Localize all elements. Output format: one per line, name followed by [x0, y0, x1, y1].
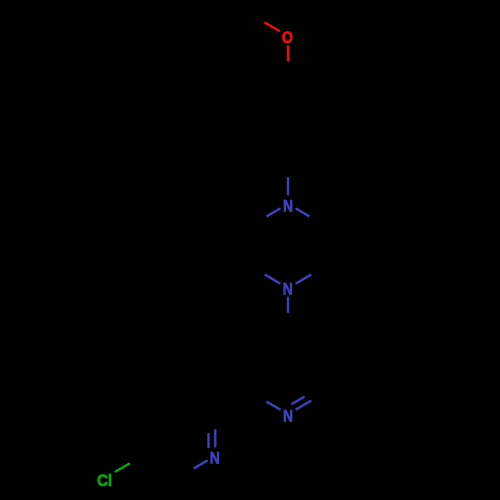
- bond N1-PC2R: [296, 209, 324, 225]
- bond B3-B2: [179, 393, 215, 414]
- bond A2-AN1: [296, 393, 324, 409]
- double bond inner line B6=B5: [151, 453, 177, 468]
- bond B6-B5: [143, 456, 179, 477]
- double bond inner line B4=B3: [151, 402, 177, 417]
- bond A4-A3: [288, 330, 324, 351]
- bond C4-C3L: [252, 141, 288, 162]
- bond C4-N1: [287, 162, 289, 194]
- bond C1-C2R: [288, 78, 324, 99]
- bond B5-B4: [141, 414, 143, 456]
- bond PC3L-N4: [252, 267, 280, 283]
- svg-text:N: N: [210, 450, 220, 468]
- double bond inner line A6=A5: [257, 357, 259, 387]
- bond A3-A2: [323, 351, 325, 393]
- double bond inner line C2R=C3R: [316, 105, 318, 135]
- bond C2L-C1: [252, 78, 288, 99]
- bond A6-A5: [250, 351, 252, 393]
- svg-text:N: N: [283, 281, 293, 299]
- bond N4-A4: [287, 298, 289, 330]
- bond BN1-B6: [179, 461, 207, 477]
- bond CH3-O: [252, 15, 279, 31]
- svg-text:N: N: [283, 198, 293, 216]
- bond B4-B3: [143, 393, 179, 414]
- svg-text:N: N: [283, 407, 293, 425]
- bond N1-PC2L: [252, 209, 280, 225]
- bond A6-B2: [215, 393, 251, 414]
- bond C3R-C4: [288, 141, 324, 162]
- bond B5-CL: [116, 456, 143, 472]
- bond B2-BN1: [214, 414, 216, 446]
- bond AN1-A6: [252, 393, 280, 409]
- bond O-C1: [287, 47, 289, 79]
- bond A5-A4: [252, 330, 288, 351]
- bond C2R-C3R: [323, 99, 325, 141]
- double bond inner line B2=BN1: [207, 421, 209, 447]
- double bond inner line A2=AN1: [292, 391, 315, 404]
- bond PC2L-PC3L: [250, 225, 252, 267]
- bond PC2R-PC3R: [323, 225, 325, 267]
- svg-text:O: O: [282, 29, 293, 47]
- double bond inner line C3L=C2L: [257, 105, 259, 135]
- bond PC3R-N4: [296, 267, 324, 283]
- svg-text:Cl: Cl: [97, 472, 112, 490]
- double bond inner line A5=A4: [260, 339, 286, 354]
- double bond inner line C2L=C1: [260, 87, 286, 102]
- bond C3L-C2L: [250, 99, 252, 141]
